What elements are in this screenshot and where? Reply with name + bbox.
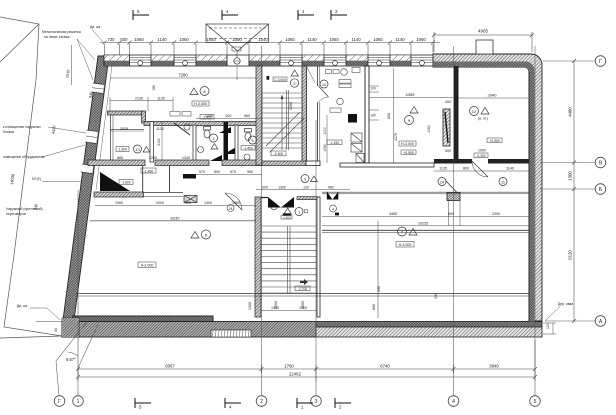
svg-text:890: 890 xyxy=(448,212,454,216)
window opening in slanted wall (lower) xyxy=(81,164,93,174)
svg-text:Дв. шк: Дв. шк xyxy=(90,25,101,29)
svg-text:7280: 7280 xyxy=(178,73,188,78)
svg-text:1340: 1340 xyxy=(182,156,190,160)
axis 2 vertical xyxy=(261,46,263,396)
wall: upper stair left x256 xyxy=(256,66,262,165)
hall top thin line left xyxy=(90,220,256,222)
right dimension chain xyxy=(572,59,576,323)
svg-text:3: 3 xyxy=(315,399,318,405)
svg-text:22462: 22462 xyxy=(289,372,302,377)
svg-text:600: 600 xyxy=(387,113,391,119)
axis 1 bottom circle xyxy=(73,396,84,407)
wall: room divider y111 left xyxy=(108,111,145,115)
dim row left rooms y203 xyxy=(95,205,256,207)
axis 4 bottom circle xyxy=(448,396,459,407)
svg-text:2130: 2130 xyxy=(135,97,143,101)
section marker 5 bottom xyxy=(135,398,151,408)
svg-text:670: 670 xyxy=(230,170,236,174)
stair lower treads xyxy=(261,226,317,293)
svg-text:1140: 1140 xyxy=(157,37,167,42)
stair down label xyxy=(300,279,308,285)
svg-text:Н-3.000: Н-3.000 xyxy=(401,142,414,146)
svg-text:4170: 4170 xyxy=(394,133,398,141)
section marker 4 top xyxy=(222,10,238,20)
wall: slanted left exterior wall xyxy=(63,56,109,320)
top-right exterior wall with rounded corner xyxy=(433,54,542,321)
svg-text:3840: 3840 xyxy=(489,364,499,369)
dim row right corridor y169 xyxy=(434,170,529,172)
svg-text:570: 570 xyxy=(199,170,205,174)
window W3 xyxy=(280,58,302,66)
room 12 mark xyxy=(470,107,490,116)
svg-text:-1.450: -1.450 xyxy=(144,169,154,173)
svg-text:885: 885 xyxy=(117,156,123,160)
corridor marks 14 / 11 xyxy=(438,178,446,186)
wall: room12 left x454 xyxy=(454,66,459,159)
wall: corridor top (left section) y160 xyxy=(88,160,145,166)
svg-text:1130: 1130 xyxy=(157,97,165,101)
wall: laundry divider x365 xyxy=(365,66,369,163)
second stair diagonal xyxy=(270,118,304,152)
svg-text:1060: 1060 xyxy=(232,37,242,42)
svg-text:блоков: блоков xyxy=(3,130,14,134)
svg-text:помещение оборудования: помещение оборудования xyxy=(3,155,45,159)
svg-text:600: 600 xyxy=(185,201,191,205)
svg-text:-1.800: -1.800 xyxy=(118,148,128,152)
svg-text:1300: 1300 xyxy=(278,185,286,189)
stair 2 mark xyxy=(290,70,298,87)
svg-text:переговоров: переговоров xyxy=(6,212,26,216)
svg-text:24: 24 xyxy=(229,207,233,211)
svg-text:-1.450: -1.450 xyxy=(243,146,253,150)
svg-text:на окнах 1этажа: на окнах 1этажа xyxy=(44,35,70,39)
wall: vertical x150 xyxy=(150,122,154,163)
svg-text:2390: 2390 xyxy=(492,212,500,216)
stair upper treads xyxy=(262,90,302,150)
svg-text:5: 5 xyxy=(534,399,537,405)
svg-text:980: 980 xyxy=(328,185,334,189)
inner face line along slanted wall xyxy=(96,66,112,190)
svg-text:4: 4 xyxy=(452,399,455,405)
svg-text:590: 590 xyxy=(377,286,381,292)
wall: x317 upper partition xyxy=(318,66,320,162)
svg-text:190: 190 xyxy=(434,293,438,299)
axis 3 bottom circle xyxy=(311,396,322,407)
svg-text:1540: 1540 xyxy=(206,37,216,42)
special segment x211 vertical hatch xyxy=(211,330,251,337)
svg-text:3: 3 xyxy=(304,178,306,182)
svg-text:1140: 1140 xyxy=(506,167,514,171)
svg-text:Н-3.000: Н-3.000 xyxy=(194,102,207,106)
svg-text:Дв. шк: Дв. шк xyxy=(17,304,28,308)
svg-text:-1.450: -1.450 xyxy=(330,141,340,145)
svg-text:1300: 1300 xyxy=(568,171,573,181)
ramp black triangle xyxy=(100,172,130,191)
svg-text:195: 195 xyxy=(152,85,156,91)
svg-text:1140: 1140 xyxy=(395,37,405,42)
inner face right wall dense strip xyxy=(529,94,535,322)
svg-text:960: 960 xyxy=(244,114,250,118)
crossed vent rect y195.5 xyxy=(184,196,197,203)
section marker 5 top xyxy=(133,10,149,20)
svg-text:Н-3.000: Н-3.000 xyxy=(141,264,154,268)
svg-text:-0.300: -0.300 xyxy=(274,152,284,156)
svg-text:1: 1 xyxy=(77,399,80,405)
svg-text:100: 100 xyxy=(370,114,376,118)
bottom band right section: dense inner strip + hatch xyxy=(316,322,542,328)
wall pier 6 xyxy=(346,55,368,66)
room 8 mark xyxy=(190,87,209,96)
door swing room12 xyxy=(472,161,488,177)
pier extension lines xyxy=(448,200,450,227)
svg-text:520: 520 xyxy=(226,114,232,118)
window W4 xyxy=(324,58,346,66)
svg-text:Г: Г xyxy=(599,59,602,65)
svg-text:1540: 1540 xyxy=(258,37,268,42)
svg-text:400: 400 xyxy=(445,100,451,104)
axis 5 vertical xyxy=(534,46,536,396)
room dividers between y166-192 xyxy=(142,166,144,192)
lower stair top wall + double door xyxy=(297,197,317,200)
svg-text:1: 1 xyxy=(298,211,300,215)
wall: upper stair right x302 xyxy=(302,66,307,165)
svg-text:890: 890 xyxy=(214,170,220,174)
wall: bottom exterior main band xyxy=(62,322,316,338)
svg-text:4: 4 xyxy=(332,207,334,211)
svg-text:1000: 1000 xyxy=(274,301,278,309)
window W1 xyxy=(130,58,152,66)
dim row under WC y172 xyxy=(193,174,262,176)
svg-text:1140: 1140 xyxy=(307,37,317,42)
svg-text:Дер. сваи: Дер. сваи xyxy=(558,302,573,306)
room 13 mark xyxy=(134,145,150,153)
bottom dimension chains xyxy=(76,322,537,381)
svg-text:1060: 1060 xyxy=(427,125,431,133)
axis 2 bottom circle xyxy=(256,396,267,407)
svg-text:500: 500 xyxy=(445,149,451,153)
svg-text:4905: 4905 xyxy=(478,29,489,34)
black bar mid xyxy=(183,174,196,179)
svg-text:1130: 1130 xyxy=(156,127,164,131)
svg-text:50: 50 xyxy=(54,328,59,333)
svg-text:1300: 1300 xyxy=(289,102,293,110)
toilet 1 xyxy=(204,127,211,139)
svg-text:-0.300: -0.300 xyxy=(476,154,486,158)
svg-text:2940: 2940 xyxy=(488,93,498,98)
room 3 mark xyxy=(301,175,317,183)
svg-text:600: 600 xyxy=(262,185,268,189)
wall pier 5 xyxy=(302,55,324,66)
svg-text:Металлическая решетка: Металлическая решетка xyxy=(42,30,81,34)
svg-text:4480: 4480 xyxy=(568,107,573,117)
note: outdoor units xyxy=(3,125,45,159)
thin vertical divider x378 xyxy=(377,221,379,318)
svg-text:800: 800 xyxy=(463,167,469,171)
svg-text:С-3.000: С-3.000 xyxy=(274,78,286,82)
wall: left rooms bottom y192 hatched xyxy=(94,192,144,197)
axis 5 bottom circle xyxy=(530,396,541,407)
svg-text:1300: 1300 xyxy=(204,201,212,205)
svg-text:1060: 1060 xyxy=(329,37,339,42)
left room inner wall x110 xyxy=(110,115,112,160)
wall pier 2 xyxy=(151,55,174,66)
equipment row along x354 laundry xyxy=(348,114,357,123)
wall: top exterior wall band x104-434 xyxy=(104,47,434,80)
dim line y189.7 stair entry xyxy=(256,189,350,191)
vent shaft black bar xyxy=(224,122,229,162)
wall: WC divider x193 xyxy=(193,125,196,162)
right strip wall y192 double xyxy=(322,191,529,193)
section marker 1 top xyxy=(298,10,314,20)
wall: lower stair left x255 xyxy=(255,197,261,317)
room 10 mark xyxy=(320,80,328,88)
svg-text:890: 890 xyxy=(372,304,376,310)
chimney on top-right wall xyxy=(476,40,493,54)
svg-text:1300: 1300 xyxy=(248,302,252,310)
axis В circle xyxy=(595,157,606,168)
wall: lower stair right x317 xyxy=(317,197,320,317)
niche duct x443 xyxy=(443,109,450,146)
hall bottom double line y293 xyxy=(76,292,529,294)
axis Б line xyxy=(540,188,595,190)
svg-text:N7(У): N7(У) xyxy=(32,177,41,181)
top dimension chain xyxy=(100,41,440,56)
wall: room12 bottom y159 xyxy=(434,159,472,164)
svg-text:1240: 1240 xyxy=(149,156,157,160)
wall: WC divider x224 xyxy=(224,125,228,162)
laundry small annotations xyxy=(326,70,332,74)
entrance door opening xyxy=(227,47,249,80)
svg-text:1090: 1090 xyxy=(323,144,327,152)
svg-text:10: 10 xyxy=(322,83,326,87)
svg-text:130: 130 xyxy=(303,185,309,189)
axis Б circle xyxy=(595,184,606,195)
svg-text:-1.800: -1.800 xyxy=(121,181,131,185)
note: metal grille xyxy=(42,30,81,39)
svg-text:1060: 1060 xyxy=(134,37,144,42)
svg-text:(и. эт.): (и. эт.) xyxy=(478,117,488,121)
svg-text:2000: 2000 xyxy=(156,201,164,205)
dims 2130 1130 xyxy=(110,97,173,111)
dim row right rooms y212 xyxy=(322,215,529,217)
svg-text:4: 4 xyxy=(212,137,214,141)
svg-text:1060: 1060 xyxy=(115,201,123,205)
svg-text:500: 500 xyxy=(120,37,128,42)
4905 dimension xyxy=(432,32,534,52)
door flags black xyxy=(219,127,231,133)
wall: WC block top y121.5 xyxy=(144,122,262,126)
window W2 xyxy=(174,58,196,66)
dim row above WC y118 xyxy=(196,118,262,120)
wall: bottom exterior band (porch slab left) xyxy=(73,316,213,322)
svg-text:1140: 1140 xyxy=(351,37,361,42)
axis 3 vertical xyxy=(315,120,317,396)
svg-text:2130: 2130 xyxy=(157,138,161,146)
door swing corridor left xyxy=(225,193,242,210)
wall pier 3 xyxy=(196,55,227,66)
dark corner at slanted wall base xyxy=(62,318,79,337)
svg-text:730: 730 xyxy=(107,37,115,42)
svg-text:2029: 2029 xyxy=(120,127,128,131)
column pier in corridor xyxy=(447,193,460,201)
section marker 1 bottom xyxy=(297,398,313,408)
hall 7 mark xyxy=(398,227,418,236)
axis 4 vertical xyxy=(453,46,455,396)
wall: right hall top y230 double xyxy=(322,229,529,231)
svg-text:11: 11 xyxy=(501,181,505,185)
svg-text:1135: 1135 xyxy=(439,167,447,171)
axis В line xyxy=(540,162,595,164)
svg-text:4465: 4465 xyxy=(389,212,397,216)
section marker 4 bottom xyxy=(225,398,241,408)
svg-text:6740: 6740 xyxy=(380,364,390,369)
stair bottom dims xyxy=(261,310,317,312)
window W6 xyxy=(411,58,433,66)
hall 6 mark xyxy=(191,230,211,239)
svg-text:1060: 1060 xyxy=(416,37,426,42)
axis Г' bottom circle with slanted leader xyxy=(56,318,90,396)
dim 7280 room 8 xyxy=(110,77,256,79)
window opening in slanted wall (middle) xyxy=(85,130,98,144)
svg-text:-1.300: -1.300 xyxy=(282,216,291,220)
svg-text:120: 120 xyxy=(546,323,550,329)
svg-text:+0.900: +0.900 xyxy=(403,151,414,155)
axis 1 vertical xyxy=(77,190,79,316)
svg-text:к помещению наружных: к помещению наружных xyxy=(3,125,41,129)
svg-text:14: 14 xyxy=(440,181,444,185)
window opening in slanted wall (top) xyxy=(92,83,104,94)
svg-text:1100: 1100 xyxy=(323,127,327,134)
svg-text:960: 960 xyxy=(247,170,253,174)
svg-text:10235: 10235 xyxy=(418,221,428,225)
svg-text:1060: 1060 xyxy=(285,37,295,42)
svg-text:-2.700: -2.700 xyxy=(298,287,308,291)
svg-text:1760: 1760 xyxy=(284,364,294,369)
dim 10235 xyxy=(322,225,529,227)
svg-text:9.67°: 9.67° xyxy=(66,357,76,362)
stair bottom entry marks xyxy=(284,208,303,216)
svg-text:1060: 1060 xyxy=(373,37,383,42)
WC marks xyxy=(210,134,218,149)
wall: corridor top right y163 xyxy=(306,161,320,166)
svg-text:+0.900: +0.900 xyxy=(489,139,500,143)
room 9 mark xyxy=(405,107,419,125)
svg-text:8230: 8230 xyxy=(171,215,181,220)
svg-text:6120: 6120 xyxy=(568,250,573,260)
wall: upper stair bottom y161 xyxy=(262,161,306,166)
svg-text:13: 13 xyxy=(135,148,139,152)
svg-text:4355: 4355 xyxy=(406,92,416,97)
svg-text:6067: 6067 xyxy=(165,364,175,369)
axis А circle xyxy=(595,316,606,327)
svg-text:1500: 1500 xyxy=(301,301,305,309)
wall: vertical step x142 xyxy=(142,111,146,123)
svg-text:5: 5 xyxy=(251,139,253,143)
note: intercom xyxy=(6,207,43,216)
window W5 xyxy=(368,58,390,66)
svg-text:1060: 1060 xyxy=(179,37,189,42)
wall pier 7 xyxy=(390,55,411,66)
section marker 2 top xyxy=(331,10,347,20)
axis А line xyxy=(545,320,595,322)
wall pier 4 xyxy=(249,55,280,66)
svg-text:1000: 1000 xyxy=(478,149,486,153)
svg-text:100: 100 xyxy=(370,87,376,91)
axis Г line xyxy=(543,60,595,62)
property boundary xyxy=(0,17,62,338)
wall: WC divider x235 xyxy=(235,125,238,162)
axis Г circle xyxy=(595,56,606,67)
svg-text:Н-3.000: Н-3.000 xyxy=(399,243,412,247)
svg-text:1200: 1200 xyxy=(205,114,213,118)
svg-text:2: 2 xyxy=(260,399,263,405)
toilet 2 xyxy=(245,129,252,141)
svg-text:12: 12 xyxy=(472,109,477,114)
section marker 2 bottom xyxy=(335,398,351,408)
svg-text:Г: Г xyxy=(58,399,61,405)
wall pier 1 xyxy=(104,55,130,66)
